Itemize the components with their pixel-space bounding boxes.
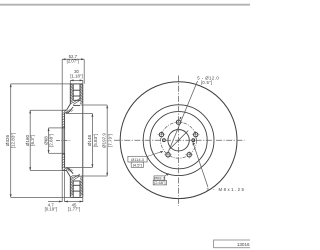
boxed label D68.3 <box>153 174 169 185</box>
dimension arrows <box>10 58 109 202</box>
svg-text:[0.5"]: [0.5"] <box>201 80 213 85</box>
svg-text:[2.68"]: [2.68"] <box>154 180 165 185</box>
hatch flange top <box>62 113 64 127</box>
boxed label D114.3 <box>128 151 163 167</box>
flange mounting face <box>61 110 63 170</box>
dim 52.7 extension lines <box>61 59 63 109</box>
rotor ring top edge (OD) <box>70 83 83 85</box>
svg-text:Ø114.3: Ø114.3 <box>131 157 145 162</box>
hatch flange bottom <box>62 154 64 168</box>
lug holes 5x D12 <box>159 120 198 157</box>
hatch ring right plate bottom <box>80 176 83 196</box>
dim 52.7 line <box>62 58 84 60</box>
svg-text:[0.19"]: [0.19"] <box>45 207 57 212</box>
arrows D326 <box>10 84 12 87</box>
dim 4.7 line <box>48 201 62 203</box>
svg-text:[5.83"]: [5.83"] <box>93 134 98 147</box>
dim D160 extension lines <box>30 109 62 111</box>
set screw holes 2x M8 <box>163 139 166 142</box>
hatch ring right plate top <box>80 84 83 104</box>
arrowhead at top lug hole <box>180 117 182 120</box>
vane lines top <box>73 89 80 91</box>
hatch ring web top <box>73 98 80 104</box>
rotor ring bottom edge (OD) <box>70 196 83 198</box>
arrows 30 <box>70 79 73 81</box>
bolt circle (dash-dot) <box>161 122 197 158</box>
dim D160 line <box>29 110 31 170</box>
svg-text:[2.68"]: [2.68"] <box>48 134 53 147</box>
flange inner face / bore silhouette <box>64 113 66 168</box>
center bore edges <box>62 127 64 129</box>
svg-text:[1.18"]: [1.18"] <box>70 73 82 78</box>
dim 30 extension stubs <box>69 80 71 84</box>
hatch ring left plate top <box>70 84 73 104</box>
rotor ring inboard face bottom <box>67 171 71 198</box>
dim D148 line <box>91 114 93 168</box>
vertical centerline <box>178 76 180 207</box>
bottom dims extension lines <box>61 172 63 203</box>
dim D326 extension lines <box>11 83 70 85</box>
leader 5-D12.0 <box>168 81 198 154</box>
dim D148 extension lines <box>66 113 92 115</box>
dim 45 line <box>65 201 83 203</box>
hatch ring web bottom <box>73 174 80 180</box>
lug hole centermarks <box>158 118 200 158</box>
arrows 52.7 <box>62 58 65 60</box>
arrows D197.9 <box>106 105 108 108</box>
dim D68 line <box>48 128 50 153</box>
center bore <box>168 130 189 151</box>
top border line <box>0 4 250 6</box>
hat wall bottom inner <box>65 168 74 174</box>
section centerline <box>56 140 71 142</box>
dim D197.9 extension lines <box>81 104 108 106</box>
arrows D68 <box>48 128 50 131</box>
label 5-D12.0 <box>197 76 219 86</box>
dim D68 extension lines <box>49 127 62 129</box>
svg-text:[6.3"]: [6.3"] <box>30 135 35 145</box>
hat circle D160 <box>150 112 207 169</box>
dim D326 line <box>10 84 12 197</box>
bore region inner shading <box>63 128 65 153</box>
hatch ring left plate bottom <box>70 175 73 195</box>
vane lines bottom <box>73 190 80 192</box>
arrows D148 <box>91 114 93 117</box>
arrows 4.7 / 45 <box>59 201 62 203</box>
title block <box>214 240 254 248</box>
svg-text:Ø148: Ø148 <box>87 134 92 146</box>
hat wall top inner <box>65 107 74 113</box>
hatch hat wall top <box>64 110 71 112</box>
arrows D160 <box>29 110 31 113</box>
svg-text:2 - M8x1.25: 2 - M8x1.25 <box>206 187 244 192</box>
section hatching <box>62 84 83 196</box>
rotor ring inboard face top <box>67 84 71 110</box>
svg-text:[2.07"]: [2.07"] <box>67 59 79 64</box>
svg-text:Ø197.9: Ø197.9 <box>102 133 107 148</box>
hatch hat diagonal top <box>67 109 73 112</box>
section dimension texts <box>5 54 112 211</box>
svg-text:[1.77"]: [1.77"] <box>68 207 80 212</box>
svg-text:[4.5"]: [4.5"] <box>133 162 142 167</box>
bore diagonal line <box>169 131 188 150</box>
vent gap rails top <box>72 84 74 100</box>
svg-text:[12.83"]: [12.83"] <box>10 133 15 149</box>
ring inner edge bottom <box>73 175 80 177</box>
hatch hat wall bottom <box>64 168 71 170</box>
svg-text:13016: 13016 <box>237 242 250 247</box>
ring inner edge top <box>73 104 80 106</box>
hat wall top outer <box>62 109 66 111</box>
leader 2-M8x1.25 <box>193 142 208 187</box>
outer circle OD <box>120 82 237 199</box>
dim D197.9 line <box>106 105 108 176</box>
vent gap rails bottom <box>72 181 74 197</box>
arrowhead at right M8 hole <box>193 142 196 145</box>
rotor ring outboard face <box>82 84 84 197</box>
hatch hat diagonal bottom <box>67 169 73 172</box>
front view centerlines <box>114 76 245 207</box>
hat wall bottom outer <box>62 170 66 172</box>
dim 30 line <box>70 79 83 81</box>
friction inner circle D197.9 <box>143 105 214 176</box>
horizontal centerline <box>114 139 245 141</box>
svg-text:[7.79"]: [7.79"] <box>107 134 112 147</box>
